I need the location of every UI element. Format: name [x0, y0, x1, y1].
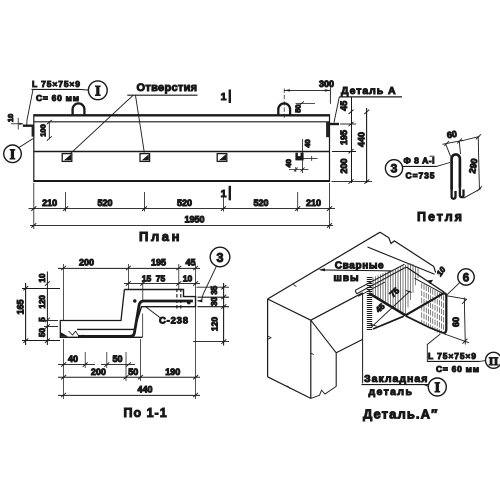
svg-text:деталь: деталь: [369, 386, 413, 398]
recessed face vertical + leader down: [362, 293, 364, 384]
angle top leg end cap: [434, 267, 436, 273]
svg-text:Петля: Петля: [417, 210, 464, 224]
svg-text:50: 50: [38, 328, 47, 337]
left leg underside edge: [373, 316, 404, 329]
right dim chain 35/30/120: [193, 283, 229, 346]
svg-text:I: I: [434, 380, 440, 396]
svg-text:195: 195: [339, 130, 349, 145]
svg-text:300: 300: [319, 79, 334, 89]
svg-text:Деталь.А″: Деталь.А″: [363, 407, 438, 422]
svg-text:I: I: [10, 147, 16, 163]
loop hairpin: [452, 154, 460, 189]
hole 2: [140, 154, 150, 162]
V thick edges: [369, 293, 406, 315]
svg-text:120: 120: [210, 317, 220, 331]
svg-text:Закладная: Закладная: [364, 373, 428, 385]
break zigzag bottom: [311, 386, 336, 398]
svg-text:I: I: [95, 83, 101, 99]
svg-text:210: 210: [306, 198, 321, 208]
leader to hole 1: [71, 95, 133, 153]
svg-text:60: 60: [451, 317, 461, 327]
svg-text:3: 3: [391, 162, 398, 176]
V inner corner edge right: [406, 294, 443, 316]
svg-text:120: 120: [38, 295, 47, 309]
block front-top edge: [268, 299, 311, 320]
right wing top edge: [406, 267, 444, 292]
dim 300 (top): [284, 87, 330, 104]
block left edge: [267, 299, 269, 377]
hole 4 (at section cut, filled): [295, 153, 303, 161]
leader circle I to bracket: [19, 139, 33, 148]
svg-text:5: 5: [38, 317, 47, 322]
step vertical: [335, 353, 337, 387]
total dimension 1950: [30, 224, 333, 226]
svg-text:45: 45: [185, 258, 195, 268]
second dim chain 15/75/10: [124, 281, 200, 285]
svg-text:60: 60: [446, 129, 458, 141]
right dim chain (45/195/200): [332, 98, 373, 184]
hole 4 small 40/40 dims: [289, 139, 318, 173]
svg-text:C=735: C=735: [406, 170, 435, 180]
leader to loop: [437, 163, 451, 167]
svg-text:40: 40: [284, 159, 293, 167]
svg-text:10: 10: [6, 114, 15, 122]
svg-text:45: 45: [339, 101, 349, 111]
svg-text:П: П: [489, 354, 499, 368]
svg-text:1: 1: [221, 91, 227, 103]
svg-text:С-238: С-238: [159, 315, 188, 326]
plate on top face: [355, 264, 404, 290]
svg-text:190: 190: [165, 367, 180, 377]
bottom chain 200/50/190: [58, 375, 200, 379]
beam left edge: [33, 114, 35, 182]
loop left end hook: [452, 186, 456, 199]
svg-text:195: 195: [151, 258, 166, 268]
hook2 centerline: [283, 89, 285, 119]
concrete Z profile outline: [77, 290, 196, 330]
leader to right bracket: [334, 97, 339, 123]
svg-text:50: 50: [112, 354, 122, 364]
callout circle П: [486, 352, 500, 368]
callout circle 3 with leader and arrow: [210, 247, 230, 267]
bottom small dims 40 and 50: [58, 362, 135, 366]
dim 10 (left, small): [11, 118, 23, 130]
step bottom diagonal: [336, 339, 362, 352]
svg-text:440: 440: [137, 384, 152, 394]
beam right edge: [329, 114, 331, 182]
web left edge: [60, 290, 142, 338]
svg-text:200: 200: [91, 367, 106, 377]
right wing bottom edge: [406, 316, 444, 333]
leader from label to V tip: [427, 334, 440, 361]
lifting hook loop 2: [278, 103, 290, 115]
block top-back edge: [268, 232, 380, 299]
callout circle 3 (loop): [385, 160, 402, 177]
bottom extension lines: [64, 306, 196, 399]
section mark 1-1 top: [229, 90, 231, 104]
svg-text:10: 10: [183, 273, 193, 283]
top extension lines: [64, 264, 196, 320]
svg-text:Ф 8 А-I: Ф 8 А-I: [404, 155, 435, 165]
block front-right edge: [310, 320, 312, 398]
dim 440 (right): [364, 108, 369, 184]
svg-text:100: 100: [38, 124, 47, 137]
leader from label to left bracket: [27, 90, 33, 126]
svg-text:По 1-1: По 1-1: [124, 406, 168, 420]
svg-text:1950: 1950: [184, 214, 204, 224]
svg-text:40: 40: [68, 354, 78, 364]
svg-text:швы: швы: [334, 273, 360, 284]
section mark 1-1 bottom: [229, 186, 231, 201]
dim 100 (vertical at left end): [47, 120, 52, 141]
dim 50 (hook height): [296, 101, 316, 105]
75 dim across face: [371, 290, 412, 327]
bottom total 440: [58, 393, 200, 397]
callout circle I (top left): [88, 81, 107, 100]
svg-text:C= 60 мм: C= 60 мм: [436, 364, 479, 374]
svg-text:520: 520: [97, 198, 112, 208]
loop right end hook: [460, 184, 464, 197]
svg-text:Деталь А: Деталь А: [341, 85, 396, 97]
callout circle 6: [458, 269, 474, 285]
svg-text:50: 50: [293, 104, 302, 112]
edge wiggle marks: [268, 336, 271, 339]
svg-text:Отверстия: Отверстия: [137, 82, 198, 94]
block bottom-left edge: [268, 377, 311, 399]
block top-right front edge: [311, 293, 363, 320]
svg-text:50: 50: [128, 367, 138, 377]
beam top edge: [34, 114, 330, 116]
svg-text:210: 210: [42, 198, 57, 208]
svg-text:6: 6: [463, 273, 469, 285]
beam bottom edge: [34, 180, 330, 182]
chain dimension line 210/520/520/520/210: [29, 208, 336, 210]
top dim chain 200/195/45: [58, 266, 200, 270]
break wiggle in bottom slab: [69, 331, 79, 336]
leader to hole 2: [136, 95, 145, 152]
angle V right face (hatched dashes): [422, 283, 444, 333]
angle top leg lower edge L2: [368, 247, 435, 274]
dim 60 (loop top): [443, 138, 464, 156]
svg-text:30: 30: [210, 297, 219, 306]
svg-text:520: 520: [177, 198, 192, 208]
embedded bent bar C-238 (thick): [78, 301, 193, 336]
callout circle I: [428, 378, 446, 396]
angle V left face (hatched): [373, 263, 418, 315]
hole 3: [217, 154, 227, 162]
hole 1: [62, 154, 72, 162]
right wing mid line: [415, 278, 443, 293]
weld seam strip (vertical dashes column): [367, 278, 372, 330]
lifting hook loop 1: [73, 103, 85, 115]
svg-text:3: 3: [217, 251, 224, 265]
svg-text:200: 200: [339, 158, 349, 173]
embedded angle bracket, right end: [326, 122, 339, 138]
svg-text:75: 75: [156, 273, 166, 283]
beam second line: [34, 121, 330, 123]
anchor dots: [133, 299, 136, 302]
svg-text:L 75×75×9: L 75×75×9: [428, 351, 476, 361]
svg-text:165: 165: [16, 299, 26, 314]
bottom extension lines: [34, 183, 330, 229]
callout circle I (left of beam): [4, 145, 22, 163]
svg-text:C= 60 мм: C= 60 мм: [36, 93, 79, 103]
svg-text:35: 35: [210, 285, 219, 294]
svg-text:15: 15: [142, 273, 152, 283]
dim 60 (right): [445, 296, 470, 345]
left dim chains: [22, 272, 60, 346]
step inner diagonal: [311, 320, 336, 353]
svg-text:520: 520: [253, 198, 268, 208]
svg-text:L 75×75×9: L 75×75×9: [32, 79, 80, 89]
hidden edges at top slab right end: [176, 289, 178, 310]
svg-text:40: 40: [303, 139, 312, 147]
svg-text:План: План: [139, 229, 182, 244]
svg-text:440: 440: [356, 132, 366, 147]
svg-text:200: 200: [79, 258, 94, 268]
embedded angle bracket, left end: [23, 125, 35, 137]
right wing tip edge: [443, 293, 447, 333]
dim 290 (loop side): [461, 134, 482, 198]
svg-text:10: 10: [38, 273, 47, 282]
beam middle line: [34, 151, 330, 153]
angle top leg upper edge L1 with break wiggle: [380, 232, 434, 266]
